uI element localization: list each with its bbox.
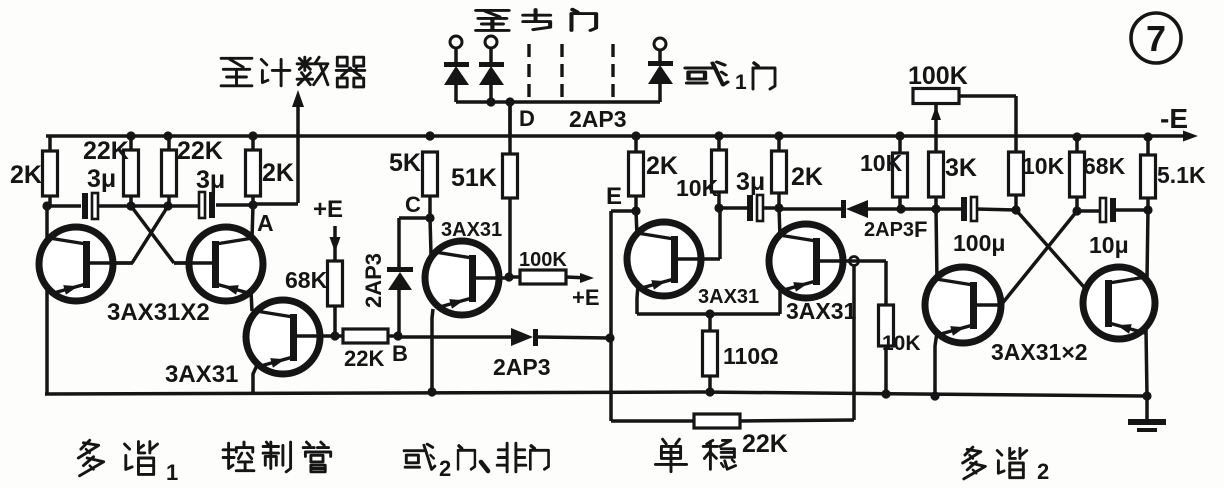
svg-text:2AP3: 2AP3 — [361, 253, 386, 308]
svg-text:110Ω: 110Ω — [723, 343, 779, 369]
svg-text:E: E — [606, 183, 622, 210]
svg-text:10K: 10K — [676, 175, 719, 201]
svg-text:2K: 2K — [10, 161, 42, 189]
svg-text:68K: 68K — [1083, 153, 1126, 179]
svg-text:2AP3: 2AP3 — [569, 106, 627, 132]
svg-text:3AX31: 3AX31 — [698, 286, 759, 308]
svg-text:D: D — [519, 106, 535, 131]
svg-text:2K: 2K — [791, 163, 823, 191]
svg-text:F: F — [914, 217, 927, 242]
svg-text:5.1K: 5.1K — [1157, 162, 1206, 188]
svg-text:-E: -E — [1160, 103, 1188, 134]
svg-text:2AP3: 2AP3 — [864, 219, 914, 241]
svg-text:1: 1 — [166, 460, 178, 485]
svg-text:7: 7 — [1146, 18, 1166, 59]
svg-text:+E: +E — [572, 285, 600, 310]
svg-text:22K: 22K — [177, 137, 223, 165]
svg-text:3μ: 3μ — [736, 168, 765, 196]
svg-text:3μ: 3μ — [196, 166, 225, 194]
svg-text:51K: 51K — [451, 164, 497, 192]
svg-text:22K: 22K — [742, 430, 788, 458]
svg-text:2K: 2K — [262, 159, 294, 187]
svg-text:5K: 5K — [389, 149, 421, 177]
svg-text:10K: 10K — [882, 332, 921, 355]
svg-text:3AX31×2: 3AX31×2 — [991, 339, 1088, 365]
svg-text:2AP3: 2AP3 — [493, 354, 551, 380]
svg-text:2K: 2K — [646, 152, 678, 180]
svg-text:10K: 10K — [1022, 153, 1065, 179]
svg-text:B: B — [392, 341, 408, 366]
svg-text:3AX31: 3AX31 — [165, 361, 238, 388]
svg-text:3AX31X2: 3AX31X2 — [107, 299, 210, 326]
svg-text:3K: 3K — [945, 154, 977, 182]
svg-text:100μ: 100μ — [953, 230, 1005, 256]
svg-text:100K: 100K — [519, 249, 567, 271]
svg-text:3AX31: 3AX31 — [786, 298, 857, 324]
svg-text:22K: 22K — [83, 137, 129, 165]
svg-text:1: 1 — [735, 71, 747, 94]
svg-text:2: 2 — [439, 456, 451, 481]
svg-text:C: C — [405, 192, 421, 217]
svg-text:3AX31: 3AX31 — [441, 219, 502, 241]
svg-text:3μ: 3μ — [87, 165, 116, 193]
svg-text:A: A — [257, 210, 274, 236]
svg-text:100K: 100K — [908, 62, 968, 90]
svg-text:2: 2 — [1037, 459, 1049, 484]
svg-text:22K: 22K — [344, 346, 384, 371]
svg-text:10K: 10K — [860, 150, 903, 176]
svg-text:68K: 68K — [285, 267, 328, 293]
svg-text:10μ: 10μ — [1089, 232, 1129, 258]
svg-text:+E: +E — [313, 196, 343, 223]
